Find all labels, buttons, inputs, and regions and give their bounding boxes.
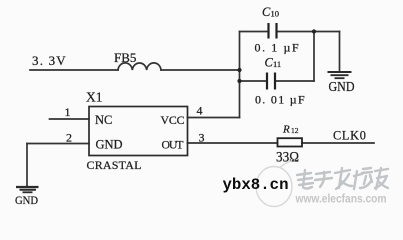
svg-text:www.elecfans.com: www.elecfans.com: [295, 194, 387, 206]
svg-text:1: 1: [65, 105, 71, 119]
svg-text:GND: GND: [15, 193, 38, 207]
svg-text:X1: X1: [86, 90, 103, 105]
svg-text:OUT: OUT: [162, 138, 185, 152]
svg-text:3: 3: [199, 130, 205, 144]
svg-text:12: 12: [291, 126, 299, 135]
svg-text:ybx8.cn: ybx8.cn: [223, 176, 289, 194]
svg-text:VCC: VCC: [161, 113, 185, 127]
svg-text:0. 01 µF: 0. 01 µF: [255, 93, 306, 107]
svg-text:CLK0: CLK0: [333, 128, 367, 142]
svg-text:3. 3V: 3. 3V: [32, 53, 67, 68]
svg-text:10: 10: [271, 9, 280, 19]
svg-text:GND: GND: [96, 138, 123, 152]
svg-text:11: 11: [273, 59, 281, 69]
svg-text:GND: GND: [329, 80, 355, 95]
svg-text:R: R: [282, 124, 290, 136]
svg-text:FB5: FB5: [114, 50, 136, 65]
svg-text:2: 2: [66, 131, 72, 145]
svg-text:0. 1 µF: 0. 1 µF: [255, 41, 301, 55]
svg-text:4: 4: [197, 104, 203, 118]
svg-text:CRASTAL: CRASTAL: [87, 158, 142, 172]
svg-text:NC: NC: [95, 113, 112, 127]
